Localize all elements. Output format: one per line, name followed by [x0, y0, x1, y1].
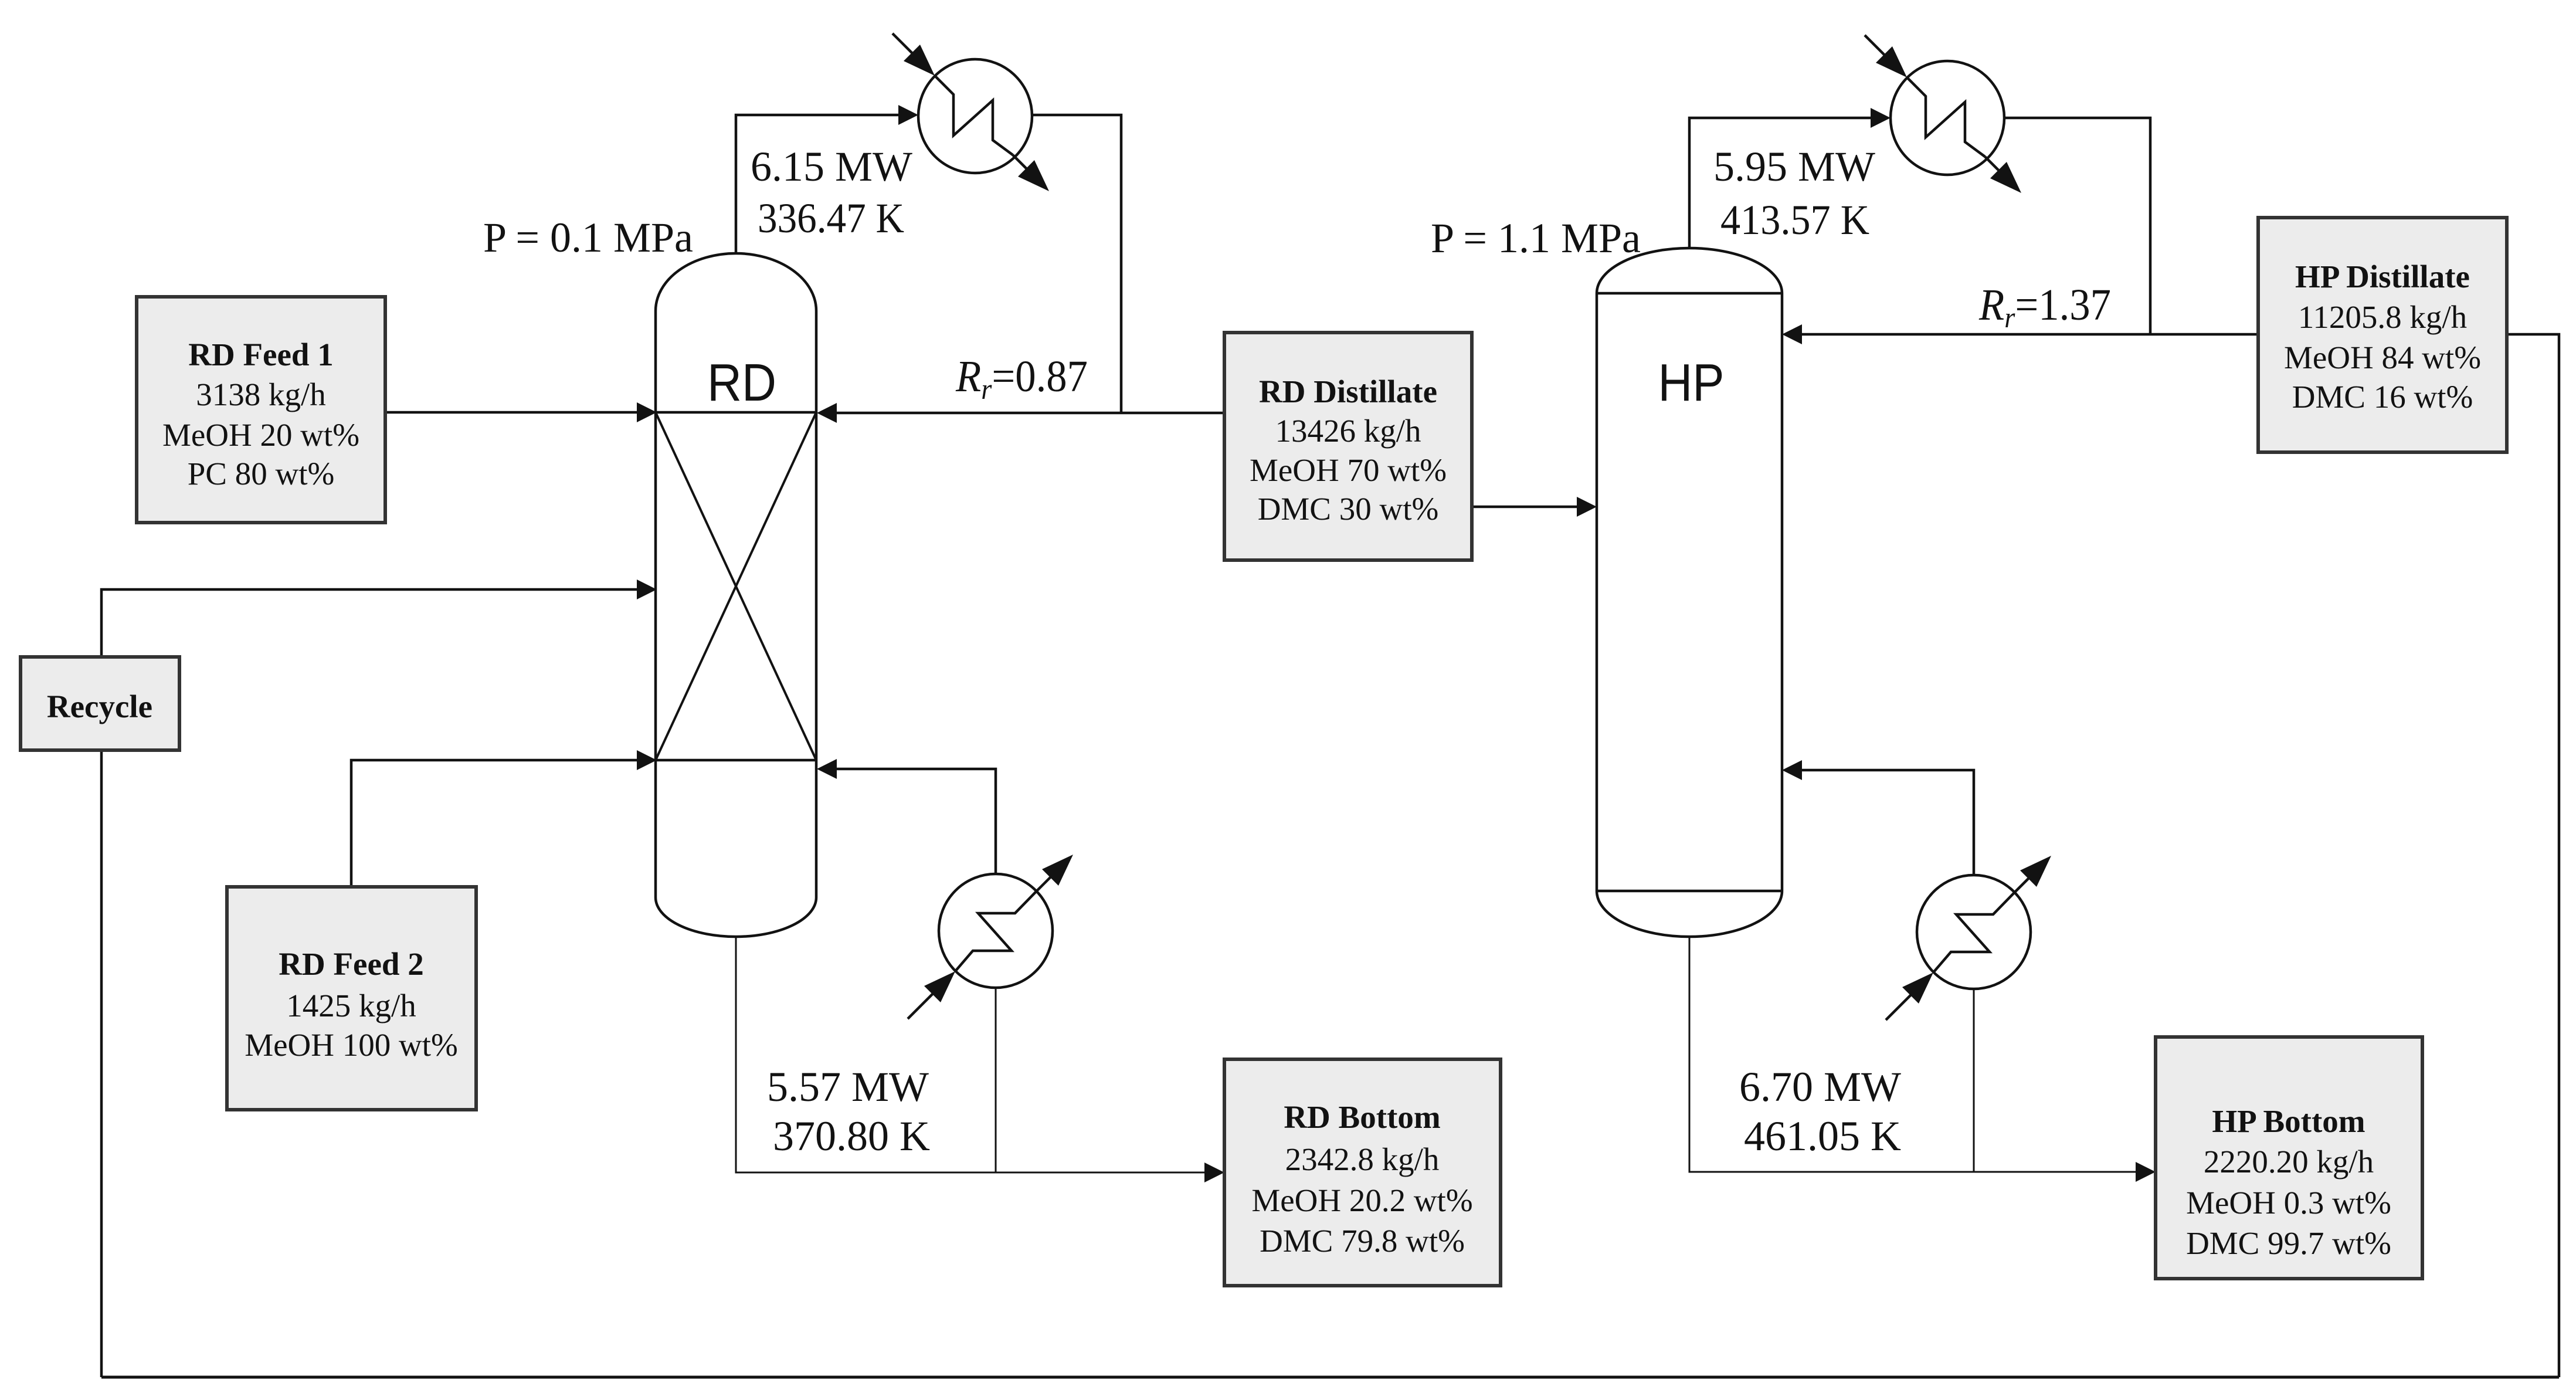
- svg-text:MeOH 0.3 wt%: MeOH 0.3 wt%: [2186, 1185, 2391, 1221]
- wire arrowhead reflux into HP column: [1782, 324, 1802, 344]
- svg-text:RD Feed 2: RD Feed 2: [279, 946, 423, 982]
- column HP (high pressure column shell): [1597, 248, 1782, 937]
- svg-text:RD Distillate: RD Distillate: [1259, 374, 1437, 409]
- svg-text:MeOH 20 wt%: MeOH 20 wt%: [162, 417, 359, 453]
- RD packing section bottom line: [656, 759, 816, 762]
- svg-text:1425 kg/h: 1425 kg/h: [286, 988, 416, 1023]
- node: Recycle stream box: [21, 657, 179, 750]
- svg-text:MeOH 70 wt%: MeOH 70 wt%: [1250, 452, 1447, 488]
- HP reboiler utility inlet arrowhead: [1902, 972, 1933, 1004]
- wire: RD distillate to HP column feed line: [1472, 506, 1593, 509]
- wire: HP bottoms product line: [1689, 937, 2152, 1172]
- wire arrowhead recycle feed into RD column: [637, 579, 657, 599]
- wire: HP reflux line into column: [1786, 333, 2258, 336]
- svg-text:RD Feed 1: RD Feed 1: [188, 337, 333, 372]
- HP condenser utility inlet arrowhead: [1876, 46, 1907, 77]
- svg-text:2342.8 kg/h: 2342.8 kg/h: [1285, 1141, 1440, 1177]
- HP bottom head seam line: [1597, 890, 1782, 893]
- wire: RD Feed 1 line: [385, 411, 653, 414]
- svg-text:DMC 30 wt%: DMC 30 wt%: [1258, 491, 1439, 527]
- svg-text:3138 kg/h: 3138 kg/h: [196, 377, 326, 412]
- svg-text:DMC 79.8 wt%: DMC 79.8 wt%: [1260, 1223, 1465, 1259]
- svg-text:RD: RD: [707, 354, 776, 412]
- node: RD Bottom stream box: [1224, 1059, 1501, 1286]
- reboiler of HP column: [1886, 872, 2035, 1020]
- node: HP Distillate stream box: [2258, 218, 2507, 452]
- node: RD Feed 1 stream box: [137, 297, 385, 523]
- svg-text:13426 kg/h: 13426 kg/h: [1275, 413, 1421, 449]
- wire arrowhead HP reboiler return into column: [1782, 760, 1802, 780]
- svg-text:413.57 K: 413.57 K: [1720, 196, 1869, 243]
- svg-text:Recycle: Recycle: [47, 689, 152, 724]
- wire: RD reflux line into column: [820, 412, 1224, 415]
- HP reboiler utility outlet arrowhead: [2020, 856, 2051, 887]
- svg-text:RD Bottom: RD Bottom: [1284, 1099, 1440, 1135]
- RD packing X diagonal 2: [656, 412, 816, 760]
- node: RD Feed 2 stream box: [227, 887, 476, 1110]
- RD reboiler utility outlet arrowhead: [1042, 855, 1073, 886]
- RD reboiler utility inlet arrowhead: [924, 971, 955, 1002]
- condenser of HP column: [1865, 35, 2005, 177]
- wire arrowhead into RD Bottom box: [1204, 1162, 1224, 1182]
- svg-text:Rr=1.37: Rr=1.37: [1978, 280, 2111, 334]
- svg-text:HP Distillate: HP Distillate: [2295, 259, 2470, 294]
- wire arrowhead into HP condenser: [1871, 108, 1891, 128]
- svg-text:HP: HP: [1658, 354, 1725, 412]
- svg-text:MeOH 20.2 wt%: MeOH 20.2 wt%: [1251, 1182, 1472, 1218]
- RD packing X diagonal 1: [656, 412, 816, 760]
- node: HP Bottom stream box: [2156, 1037, 2422, 1279]
- wire: HP reboiler draw line: [1973, 989, 1975, 1172]
- RD packing section top line: [656, 411, 816, 414]
- wire arrowhead RD reboiler return into column: [817, 759, 837, 779]
- svg-text:461.05 K: 461.05 K: [1744, 1113, 1901, 1160]
- svg-text:Rr=0.87: Rr=0.87: [955, 352, 1088, 405]
- RD condenser utility outlet arrowhead: [1018, 160, 1049, 191]
- wire: RD Feed 2 line: [351, 760, 653, 887]
- svg-text:P = 0.1 MPa: P = 0.1 MPa: [483, 214, 693, 261]
- svg-text:2220.20 kg/h: 2220.20 kg/h: [2204, 1144, 2374, 1180]
- wire arrowhead into HP Bottom box: [2136, 1162, 2156, 1182]
- wire: RD bottoms product line: [736, 937, 1221, 1172]
- wire arrowhead into RD condenser: [898, 105, 918, 125]
- svg-text:HP Bottom: HP Bottom: [2212, 1103, 2365, 1139]
- svg-text:MeOH 84 wt%: MeOH 84 wt%: [2284, 340, 2481, 375]
- wire: recycle line from HP Distillate box to bottom loop: [2507, 334, 2559, 1377]
- wire arrowhead RD Feed 2 into column: [637, 750, 657, 770]
- svg-text:5.95 MW: 5.95 MW: [1713, 143, 1875, 190]
- svg-text:5.57 MW: 5.57 MW: [767, 1063, 929, 1110]
- svg-text:6.15 MW: 6.15 MW: [751, 143, 912, 190]
- svg-text:MeOH 100 wt%: MeOH 100 wt%: [245, 1027, 458, 1063]
- svg-text:336.47 K: 336.47 K: [758, 195, 904, 242]
- wire arrowhead RD Feed 1 into column: [637, 402, 657, 422]
- svg-text:DMC 99.7 wt%: DMC 99.7 wt%: [2186, 1225, 2391, 1261]
- svg-text:P = 1.1 MPa: P = 1.1 MPa: [1431, 215, 1641, 262]
- svg-text:PC 80 wt%: PC 80 wt%: [188, 456, 335, 492]
- node: RD Distillate stream box: [1224, 333, 1472, 560]
- wire: HP condenser outlet down to reflux line: [2004, 118, 2150, 334]
- wire: HP reboiler return line into column: [1786, 770, 1974, 875]
- svg-text:DMC 16 wt%: DMC 16 wt%: [2292, 379, 2473, 415]
- wire: recycle bottom return line: [101, 1376, 2559, 1379]
- wire: HP overhead vapor line to condenser: [1689, 118, 1887, 248]
- wire: RD reboiler draw line: [995, 988, 997, 1172]
- column RD (reactive distillation column shell): [656, 253, 816, 937]
- wire arrowhead reflux into RD column: [817, 403, 837, 423]
- wire: RD reboiler return line into column: [820, 769, 996, 874]
- svg-text:11205.8 kg/h: 11205.8 kg/h: [2298, 299, 2467, 335]
- HP condenser utility outlet arrowhead: [1990, 162, 2021, 193]
- wire: recycle feed line into RD column: [101, 589, 653, 1377]
- reboiler of RD column: [908, 870, 1057, 1019]
- RD condenser utility inlet arrowhead: [904, 45, 935, 76]
- svg-text:6.70 MW: 6.70 MW: [1739, 1063, 1901, 1110]
- svg-text:370.80 K: 370.80 K: [773, 1113, 930, 1160]
- condenser of RD column: [892, 33, 1033, 175]
- wire: RD overhead vapor line to condenser: [736, 115, 915, 253]
- HP top head seam line: [1597, 292, 1782, 295]
- wire arrowhead feed into HP column: [1577, 497, 1597, 517]
- wire: RD condenser outlet down to reflux line: [1032, 115, 1121, 413]
